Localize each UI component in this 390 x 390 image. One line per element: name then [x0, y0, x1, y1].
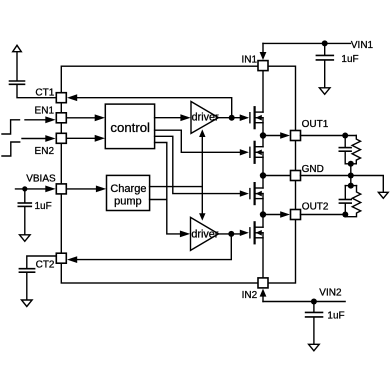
CT1 external: wire pin to capacitor	[17, 85, 56, 98]
wire EN1 external	[25, 119, 46, 121]
wire VIN2 up to IN2	[262, 297, 264, 302]
VIN1 rail wire	[263, 42, 351, 44]
driver U-DRV2 triangle	[191, 217, 219, 250]
EN1 step waveform symbol	[2, 120, 20, 134]
wire IN1 to M1 drain	[262, 71, 264, 112]
wire driver2 output to CT2	[77, 234, 232, 260]
svg-text:driver: driver	[191, 228, 218, 240]
pin square GND	[291, 171, 301, 181]
wire EN1 to control	[66, 117, 97, 119]
pin square EN1	[56, 113, 66, 123]
transistor M3	[240, 183, 263, 204]
arrowhead into M1 gate	[240, 115, 249, 121]
pin square IN1	[258, 61, 268, 71]
wire charge pump out A to drivers rail	[150, 186, 203, 188]
junction dot driver2 output	[228, 231, 234, 237]
up arrow symbol (boost)	[13, 45, 22, 51]
svg-text:VIN1: VIN1	[351, 40, 374, 51]
junction dot snubber1 bottom	[348, 161, 354, 167]
svg-text:driver: driver	[192, 111, 219, 123]
wire CT2 cap to ground	[26, 273, 28, 301]
svg-text:control: control	[110, 120, 150, 135]
wire driver1 output to CT1	[77, 98, 232, 118]
capacitor CT1 ext	[10, 81, 25, 84]
svg-text:VIN2: VIN2	[319, 287, 342, 298]
junction dot OUT1 node	[260, 132, 266, 138]
junction dot GND node	[260, 172, 266, 178]
wire M1 source to OUT1 node	[262, 118, 264, 147]
VBIAS external wire	[16, 188, 47, 190]
arrowhead into OUT2 pin	[280, 211, 290, 218]
CT2 external: wire pin to capacitor	[27, 256, 57, 268]
wire control to driver1 input	[155, 117, 183, 119]
pin square VBIAS	[56, 184, 66, 194]
svg-text:IN1: IN1	[241, 55, 257, 66]
VIN2 rail wire	[263, 301, 345, 303]
wire drivers supply rail vertical	[201, 137, 203, 215]
junction dot VIN1	[322, 40, 328, 46]
wire M4 source to IN2	[262, 233, 264, 278]
svg-text:CT1: CT1	[35, 88, 54, 99]
OUT1 snubber: wire OUT1 to RC	[301, 135, 357, 137]
pin square OUT2	[291, 210, 301, 220]
wire M3 source to OUT2 node	[262, 194, 264, 228]
arrowhead into CT2	[67, 256, 77, 263]
arrowhead control into driver1	[180, 114, 190, 121]
wire charge pump out B	[150, 199, 167, 201]
junction dot snubber2 top	[348, 183, 354, 189]
svg-text:OUT1: OUT1	[302, 119, 329, 130]
wire OUT2 node to OUT2 pin	[263, 214, 282, 216]
svg-text:1uF: 1uF	[327, 311, 344, 322]
wire snubber1 to GND line	[350, 164, 352, 186]
capacitor snubber1	[339, 136, 351, 164]
wire VIN1 down to IN1	[262, 43, 264, 52]
junction dot VIN2	[311, 299, 317, 305]
wire snubber1 bottom join	[345, 163, 356, 165]
svg-text:VBIAS: VBIAS	[26, 174, 56, 185]
capacitor VBIAS 1uF	[18, 203, 31, 206]
wire VIN2 dot to cap	[313, 302, 315, 313]
control U-CTRL box	[105, 104, 154, 149]
wire EN2 external	[22, 138, 46, 140]
svg-text:EN1: EN1	[35, 105, 55, 116]
wire control to M2 gate	[155, 130, 241, 152]
wire VIN1 cap to ground	[324, 60, 326, 88]
svg-text:GND: GND	[302, 164, 324, 175]
wire snubber2 top join	[345, 185, 356, 187]
wire VBIAS cap to ground	[24, 207, 26, 236]
arrowhead EN2 into pin	[45, 135, 55, 142]
wire control to driver2 input	[155, 143, 182, 234]
svg-text:OUT2: OUT2	[302, 202, 329, 213]
svg-text:Charge: Charge	[110, 183, 146, 195]
wire VBIAS to charge pump	[66, 188, 98, 190]
capacitor CT2 ext	[19, 269, 34, 273]
ground VBIAS	[20, 235, 31, 242]
arrowhead pump rail into driver1 bottom	[199, 129, 205, 137]
wire control to M3 gate	[155, 136, 241, 193]
EN2 step waveform symbol	[2, 142, 20, 156]
wire driver1 output to M1 gate	[219, 117, 241, 119]
ground VIN2	[309, 344, 320, 351]
junction dot driver1 output	[229, 115, 235, 121]
arrowhead control into driver2	[180, 231, 190, 238]
svg-text:IN2: IN2	[242, 290, 258, 301]
arrowhead into CT1	[67, 94, 77, 101]
transistor M2	[240, 142, 263, 163]
wire driver2 output to M4 gate	[219, 233, 241, 235]
capacitor VIN1 1uF	[316, 55, 333, 60]
capacitor VIN2 1uF	[306, 312, 323, 317]
junction dot snubber1 top	[342, 133, 348, 139]
ground GND net	[378, 192, 388, 198]
arrowhead pump rail into driver2 top	[199, 213, 205, 220]
pin square CT2	[56, 253, 66, 263]
junction dot snubber2 bottom	[342, 212, 348, 218]
wire OUT1 node to OUT1 pin	[263, 135, 282, 137]
wire VBIAS dot to cap	[24, 189, 26, 203]
resistor snubber2	[345, 186, 360, 217]
ground VIN1	[319, 88, 330, 95]
IC boundary	[61, 66, 295, 283]
pin square IN2	[258, 278, 268, 288]
charge pump U-CP box	[107, 175, 150, 210]
arrowhead VBIAS into pin	[45, 186, 55, 193]
arrowhead into IN1	[260, 52, 267, 60]
wire VIN1 dot to cap	[324, 43, 326, 55]
wire GND node to GND pin	[263, 175, 290, 177]
arrowhead EN2 into control	[95, 135, 105, 142]
junction dot VBIAS cap	[22, 186, 27, 191]
arrowhead EN1 into control	[95, 114, 105, 121]
pin square EN2	[56, 133, 66, 143]
resistor snubber1	[352, 136, 360, 164]
svg-text:CT2: CT2	[36, 260, 55, 271]
wire VIN2 cap to ground	[313, 317, 315, 344]
OUT2 line	[301, 214, 346, 216]
driver U-DRV1 triangle	[191, 102, 219, 134]
transistor M4	[240, 222, 263, 243]
arrowhead VBIAS into charge pump	[96, 186, 106, 193]
junction dot OUT2 node	[260, 211, 266, 217]
svg-text:1uF: 1uF	[35, 201, 52, 212]
svg-text:EN2: EN2	[35, 146, 55, 157]
pin square OUT1	[291, 131, 301, 141]
capacitor snubber2	[339, 186, 351, 215]
GND line to ground	[301, 176, 384, 193]
svg-text:1uF: 1uF	[341, 54, 358, 65]
wire EN2 to control	[66, 137, 97, 139]
ground CT2	[22, 300, 33, 307]
wire M2 source to GND node	[262, 152, 264, 188]
arrowhead EN1 into pin	[45, 116, 55, 123]
junction dot on GND line	[348, 173, 354, 179]
arrowhead into IN2	[260, 289, 267, 297]
svg-text:pump: pump	[114, 196, 142, 208]
pin square CT1	[56, 93, 66, 103]
transistor M1	[240, 107, 263, 128]
wire capacitor to up arrow	[16, 52, 18, 81]
arrowhead into OUT1 pin	[280, 132, 290, 139]
